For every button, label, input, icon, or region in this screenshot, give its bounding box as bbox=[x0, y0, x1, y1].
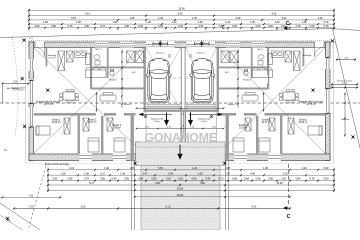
svg-text:0.78: 0.78 bbox=[310, 178, 315, 181]
entry arrows bbox=[165, 113, 193, 125]
porch arrow dims bbox=[139, 113, 222, 116]
svg-text:0.70: 0.70 bbox=[219, 178, 224, 181]
svg-text:1.28: 1.28 bbox=[302, 21, 307, 24]
terrace side double lines bbox=[131, 161, 228, 231]
svg-text:0.60: 0.60 bbox=[324, 167, 329, 170]
garage overhead dashed lines bbox=[146, 77, 181, 79]
svg-text:3.09: 3.09 bbox=[168, 172, 173, 175]
svg-text:1.20: 1.20 bbox=[275, 21, 280, 24]
svg-text:1.50: 1.50 bbox=[43, 21, 48, 24]
svg-text:0.40: 0.40 bbox=[112, 178, 117, 181]
svg-text:0.54: 0.54 bbox=[178, 25, 183, 28]
svg-text:Garázs 1: Garázs 1 bbox=[156, 52, 166, 55]
right rear-garden dimension bbox=[331, 80, 358, 89]
svg-text:0.80: 0.80 bbox=[152, 178, 157, 181]
porch dim line upper bbox=[136, 107, 224, 109]
bedroom furniture left bbox=[64, 118, 70, 134]
garage rear steps bbox=[147, 105, 217, 108]
svg-text:2.02: 2.02 bbox=[282, 17, 287, 20]
svg-text:1.05: 1.05 bbox=[250, 21, 255, 24]
svg-text:0.62: 0.62 bbox=[268, 25, 273, 28]
svg-text:1.35: 1.35 bbox=[13, 81, 18, 83]
svg-text:1.28: 1.28 bbox=[146, 21, 151, 24]
svg-text:0.74: 0.74 bbox=[324, 21, 329, 24]
door openings bbox=[92, 75, 268, 116]
svg-text:4.71: 4.71 bbox=[29, 38, 33, 40]
svg-text:1.78: 1.78 bbox=[192, 17, 197, 20]
svg-text:0.50: 0.50 bbox=[199, 25, 204, 28]
svg-text:0.68: 0.68 bbox=[219, 25, 224, 28]
svg-text:Min. oldalkert: Min. oldalkert bbox=[7, 87, 20, 90]
svg-text:5.43: 5.43 bbox=[178, 13, 183, 16]
outer wall bottom (two segments, terrace gap in middle) bbox=[29, 154, 330, 161]
terrace inner edge line bbox=[136, 146, 225, 148]
svg-text:4.08: 4.08 bbox=[225, 167, 230, 170]
svg-text:5.50: 5.50 bbox=[158, 167, 163, 170]
right small dim top bbox=[336, 57, 356, 60]
svg-text:0.52: 0.52 bbox=[158, 25, 163, 28]
svg-text:0.60: 0.60 bbox=[256, 25, 261, 28]
svg-text:1.07: 1.07 bbox=[225, 172, 230, 175]
svg-text:6.00 m: 6.00 m bbox=[341, 83, 347, 85]
svg-text:0.80: 0.80 bbox=[35, 25, 40, 28]
svg-text:10.93: 10.93 bbox=[276, 182, 283, 185]
svg-text:Fürdő 1: Fürdő 1 bbox=[109, 79, 117, 82]
porch dim line lower bbox=[136, 128, 224, 130]
porch stars bbox=[144, 115, 148, 119]
svg-text:GONAHOME: GONAHOME bbox=[145, 130, 218, 144]
sofa left bbox=[100, 93, 116, 102]
property boundary line (sloped) bbox=[0, 29, 360, 38]
left stub dimension line bbox=[0, 195, 62, 198]
svg-text:Előtér 2: Előtér 2 bbox=[228, 103, 236, 106]
svg-text:1.40: 1.40 bbox=[302, 167, 307, 170]
svg-text:10.8 m²: 10.8 m² bbox=[239, 127, 247, 130]
svg-text:Oldalkert: Oldalkert bbox=[341, 118, 350, 121]
svg-text:15.00 m²: 15.00 m² bbox=[153, 120, 160, 123]
svg-text:245: 245 bbox=[168, 57, 171, 59]
svg-text:1.28: 1.28 bbox=[318, 17, 323, 20]
svg-text:1.40: 1.40 bbox=[104, 167, 109, 170]
svg-text:0.52: 0.52 bbox=[166, 178, 171, 181]
svg-text:0.64: 0.64 bbox=[296, 178, 301, 181]
svg-text:0.54: 0.54 bbox=[138, 25, 143, 28]
svg-text:1.50: 1.50 bbox=[76, 21, 81, 24]
svg-text:0.80: 0.80 bbox=[192, 178, 197, 181]
bathroom fixtures right (mirror) bbox=[244, 54, 273, 78]
svg-text:0.54: 0.54 bbox=[138, 178, 143, 181]
interior vertical dim chain mid-right bbox=[263, 92, 265, 112]
svg-text:18.06: 18.06 bbox=[177, 194, 184, 197]
svg-text:1.28: 1.28 bbox=[283, 172, 288, 175]
svg-text:1.28: 1.28 bbox=[198, 172, 203, 175]
svg-text:0.85: 0.85 bbox=[51, 25, 56, 28]
bottom-left corner boundary diagonals bbox=[0, 203, 40, 230]
gravel strip outline bbox=[26, 39, 334, 164]
property boundary right diagonal bbox=[333, 29, 360, 148]
porch side walls bbox=[136, 142, 141, 161]
svg-text:4.40: 4.40 bbox=[250, 172, 255, 175]
interior walls left house bbox=[34, 47, 326, 160]
svg-text:2.28: 2.28 bbox=[236, 17, 241, 20]
svg-text:1.05: 1.05 bbox=[130, 167, 135, 170]
svg-text:Épület körüli kavicságy: Épület körüli kavicságy bbox=[45, 163, 70, 166]
wardrobe boxes at garage walls bbox=[127, 51, 135, 63]
svg-text:0.72: 0.72 bbox=[100, 25, 105, 28]
svg-text:12.09 m²: 12.09 m² bbox=[298, 121, 307, 124]
interior vertical dim chain right bbox=[237, 49, 239, 108]
svg-text:10.37 m²: 10.37 m² bbox=[87, 121, 96, 124]
long site dimension line bottom bbox=[13, 207, 291, 210]
outer wall left bbox=[29, 42, 34, 161]
svg-text:1.19: 1.19 bbox=[69, 167, 74, 170]
svg-text:0.85: 0.85 bbox=[124, 25, 129, 28]
svg-text:0.55: 0.55 bbox=[178, 178, 183, 181]
svg-text:Előtér 1: Előtér 1 bbox=[124, 103, 132, 106]
svg-text:0.56: 0.56 bbox=[256, 178, 261, 181]
svg-text:1.48: 1.48 bbox=[29, 207, 34, 209]
svg-text:0.60: 0.60 bbox=[310, 25, 315, 28]
dining table and chairs left bbox=[59, 89, 78, 103]
svg-text:15.00 m²: 15.00 m² bbox=[200, 120, 207, 123]
kitchen cabinets right (mirror) bbox=[294, 51, 301, 71]
dotted site contour left bbox=[12, 36, 18, 136]
bedroom furniture right (mirror) bbox=[288, 118, 294, 134]
svg-text:WC 1: WC 1 bbox=[95, 49, 101, 51]
kitchen cabinets left bbox=[58, 51, 65, 71]
garage bay diagonals bbox=[146, 48, 216, 109]
svg-text:C: C bbox=[286, 21, 290, 27]
diagonal projection lines left unit bbox=[34, 48, 144, 154]
bottom dimension chains bbox=[47, 167, 335, 198]
terrace down arrow bbox=[178, 145, 182, 159]
svg-text:19.06: 19.06 bbox=[178, 8, 185, 11]
bathroom fixtures left bbox=[86, 54, 115, 78]
outer wall right bbox=[325, 42, 330, 161]
entry door right house bbox=[315, 42, 325, 57]
dining table and chairs right (mirror) bbox=[279, 89, 298, 103]
roof overhang dotted line above top wall bbox=[29, 40, 330, 42]
svg-text:5.78: 5.78 bbox=[71, 17, 76, 20]
svg-text:4.50: 4.50 bbox=[155, 182, 160, 185]
svg-text:10.37 m²: 10.37 m² bbox=[261, 121, 270, 124]
svg-text:1.07: 1.07 bbox=[100, 172, 105, 175]
svg-text:1.38: 1.38 bbox=[84, 172, 89, 175]
svg-text:1.10: 1.10 bbox=[172, 21, 177, 24]
svg-text:1.90: 1.90 bbox=[29, 195, 34, 197]
svg-text:1.40: 1.40 bbox=[120, 172, 125, 175]
sofa right (mirror) bbox=[242, 93, 258, 102]
ridge / section dashed line across site bbox=[0, 102, 360, 104]
svg-text:1.35: 1.35 bbox=[158, 17, 163, 20]
svg-text:0.85: 0.85 bbox=[68, 178, 73, 181]
svg-text:0.68: 0.68 bbox=[232, 178, 237, 181]
svg-text:1.28: 1.28 bbox=[61, 172, 66, 175]
outer wall top bbox=[29, 40, 330, 59]
porch vertical guides bbox=[146, 112, 217, 142]
svg-text:0.64: 0.64 bbox=[244, 178, 249, 181]
interior vertical dim chain left bbox=[121, 49, 123, 108]
svg-text:11.20: 11.20 bbox=[165, 207, 171, 209]
svg-text:C: C bbox=[287, 214, 291, 220]
svg-text:9.33: 9.33 bbox=[272, 13, 277, 16]
svg-text:41.75 m²: 41.75 m² bbox=[306, 103, 316, 106]
svg-text:0.60: 0.60 bbox=[53, 178, 58, 181]
diagonal projection lines right unit bbox=[219, 48, 325, 154]
right vertical dim chain bbox=[344, 92, 346, 137]
svg-text:0.85: 0.85 bbox=[84, 25, 89, 28]
svg-text:0.78: 0.78 bbox=[68, 25, 73, 28]
svg-text:41.75 m²: 41.75 m² bbox=[44, 103, 54, 106]
svg-text:9.13: 9.13 bbox=[85, 13, 90, 16]
svg-text:4.08: 4.08 bbox=[252, 207, 257, 209]
car 2 (right garage) bbox=[190, 58, 215, 103]
svg-text:0.50: 0.50 bbox=[206, 178, 211, 181]
svg-text:6.1: 6.1 bbox=[4, 148, 8, 152]
center porch dim line bbox=[182, 112, 184, 139]
svg-text:0.78: 0.78 bbox=[84, 178, 89, 181]
svg-text:0.85: 0.85 bbox=[124, 178, 129, 181]
svg-text:0.64: 0.64 bbox=[232, 25, 237, 28]
terrace hatched area bbox=[136, 142, 226, 166]
svg-text:1.90: 1.90 bbox=[113, 21, 118, 24]
svg-text:4.50: 4.50 bbox=[200, 182, 205, 185]
svg-text:0.60: 0.60 bbox=[268, 178, 273, 181]
svg-text:Szélfogó: Szélfogó bbox=[303, 55, 312, 57]
svg-text:Fürdő 2: Fürdő 2 bbox=[243, 79, 251, 82]
svg-text:0.60: 0.60 bbox=[324, 178, 329, 181]
svg-text:19.06: 19.06 bbox=[177, 188, 184, 191]
svg-text:WC 2: WC 2 bbox=[257, 49, 263, 51]
survey star markers bbox=[22, 38, 26, 42]
svg-text:1.35: 1.35 bbox=[130, 17, 135, 20]
svg-text:12.09 m²: 12.09 m² bbox=[51, 121, 60, 124]
car 1 (left garage) bbox=[146, 58, 171, 103]
section line C bottom bbox=[284, 164, 291, 220]
svg-text:4.10 m²: 4.10 m² bbox=[48, 56, 56, 59]
svg-text:10.8 m²: 10.8 m² bbox=[113, 127, 121, 130]
svg-text:1.24: 1.24 bbox=[225, 21, 230, 24]
svg-text:Garázs 2: Garázs 2 bbox=[197, 52, 207, 55]
svg-text:1.28: 1.28 bbox=[198, 21, 203, 24]
svg-text:5.50: 5.50 bbox=[81, 207, 86, 209]
svg-text:1.43: 1.43 bbox=[192, 167, 197, 170]
svg-text:0.85: 0.85 bbox=[100, 178, 105, 181]
svg-text:8.73: 8.73 bbox=[89, 182, 94, 185]
svg-text:2.47: 2.47 bbox=[143, 172, 148, 175]
left dimension 1.35 bbox=[2, 81, 30, 84]
svg-text:1.05: 1.05 bbox=[263, 167, 268, 170]
entry door left house bbox=[35, 42, 45, 57]
svg-text:0.78: 0.78 bbox=[296, 25, 301, 28]
interior vertical dim chain mid-left bbox=[96, 92, 98, 112]
svg-text:0.62: 0.62 bbox=[281, 178, 286, 181]
svg-text:0.78: 0.78 bbox=[324, 25, 329, 28]
top dimension chain bbox=[28, 8, 335, 31]
